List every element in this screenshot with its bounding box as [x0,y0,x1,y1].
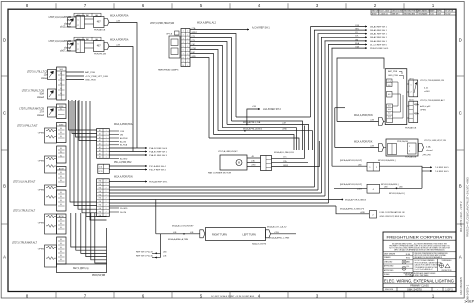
ground continuation box [340,207,406,218]
svg-text:1: 1 [409,146,410,148]
svg-text:DL-C3 REF SH 5: DL-C3 REF SH 5 [370,44,388,46]
svg-text:PRINTED • 4TL/CSM/CLAN/CPN/LST: PRINTED • 4TL/CSM/CLAN/CPN/LST • SHLNTC … [467,177,470,237]
wire relay K2 to bus [109,47,133,152]
REF arrow P22-B [136,251,167,258]
svg-text:FAN CORNER MOTOR: FAN CORNER MOTOR [208,172,231,175]
backup lamp relay row 2 [334,183,422,195]
svg-text:1 OF 5: 1 OF 5 [445,288,453,291]
svg-text:MCA,A,APNL,L,TRN: MCA,A,APNL,L,TRN [269,236,290,239]
zone scale top [26,3,435,9]
svg-text:7-4 REF SH 5: 7-4 REF SH 5 [435,171,449,173]
left turn output wires [267,225,296,239]
wire BAT_PDB [66,71,84,73]
svg-text:MCA,A,PDR,PDN: MCA,A,PDR,PDN [114,176,133,179]
svg-text:MCA,A,PDR,PDN: MCA,A,PDR,PDN [354,114,373,117]
trailer lamp breaker CB4 [22,89,56,99]
panel lamp resistor module R1 [17,125,57,143]
svg-text:DB-A5 REF SH 1: DB-A5 REF SH 1 [370,29,388,32]
REF arrow P1A-D2 [109,147,145,149]
bundle riser wires [310,27,312,118]
relay module K2 (lower park lamp feed) [49,37,133,151]
fuse pin box [76,40,85,53]
svg-text:-GRD: -GRD [251,165,256,167]
svg-text:2: 2 [411,92,412,94]
svg-text:A50: A50 [77,38,80,41]
wire into lamp unit L1 [332,165,367,167]
REF arrow P1D-F [109,169,145,171]
svg-text:LTDT,U,LN,ALBT,ALT: LTDT,U,LN,ALBT,ALT [13,181,36,184]
svg-text:A: A [459,255,462,260]
svg-text:A3-PDM: A3-PDM [120,137,128,140]
svg-text:dd01,rl,p03: dd01,rl,p03 [420,105,431,108]
svg-text:D: D [459,38,462,43]
REF arrow P1C-A [109,165,145,167]
svg-text:PDR,AKDB: PDR,AKDB [405,156,417,159]
svg-text:-CM: -CM [370,119,374,121]
svg-text:PARK/HEAD LAMPS: PARK/HEAD LAMPS [158,69,179,72]
feed wire to PDR,PDN module [337,58,384,122]
svg-text:MCA,A,CLTL,LA,JU: MCA,A,CLTL,LA,JU [267,225,287,228]
turn signal lamp unit [206,228,267,246]
svg-text:DLW: DLW [437,14,441,16]
svg-text:DB-A6 REF SH 1: DB-A6 REF SH 1 [370,40,388,43]
svg-text:MCA,A,CLST,DR,KEY: MCA,A,CLST,DR,KEY [172,225,194,228]
bulkhead connector C1 segment 1 [97,123,133,159]
svg-text:OPEN: OPEN [38,190,45,192]
wire key box riser [106,228,108,264]
wire PDM feeder upper [72,100,97,134]
svg-text:A SH2: A SH2 [372,13,377,16]
svg-text:FREIGHTLINER CORPORATION: FREIGHTLINER CORPORATION [387,234,453,239]
svg-text:B1-PDA: B1-PDA [120,144,128,147]
svg-text:7-4 REF SH 5: 7-4 REF SH 5 [435,167,449,169]
svg-text:REDRAWN: REDRAWN [419,13,428,16]
bus wire B4 [109,195,325,197]
svg-text:C3: C3 [355,32,357,34]
svg-text:LTDT,U,PNL,LT,ALT: LTDT,U,PNL,LT,ALT [17,125,38,128]
REF arrow P1A-E1 [109,151,145,153]
wire PDM feeder long [82,101,97,213]
trailer marker breaker CB5 [19,107,56,117]
wire PDM feeder long [74,101,97,206]
wire run PNL,C,DA [227,124,309,150]
svg-text:OPTB: OPTB [99,171,103,173]
svg-text:-CM: -CM [252,106,256,108]
svg-text:BPLR,DN,A,MDL]: BPLR,DN,A,MDL] [378,159,396,162]
lamp unit L1 [367,163,380,172]
svg-text:MCA,A,PNL,A,MD2: MCA,A,PNL,A,MD2 [243,128,263,131]
svg-text:crD48: crD48 [424,90,430,93]
svg-text:REV DET: REV DET [372,10,379,12]
wire switch pin2 drop [190,34,236,118]
svg-text:-CM: -CM [282,122,286,124]
zone scale bottom [26,292,435,299]
wire PDM feeder upper [79,100,97,141]
svg-text:OPEN: OPEN [420,110,426,112]
svg-text:LTDT,U,TRLR,MKR3,ALT: LTDT,U,TRLR,MKR3,ALT [420,99,445,102]
turn feed riser [160,234,162,258]
svg-text:B: B [3,184,6,189]
wire stack lower feeder [95,213,107,263]
wire run SPNL,A,MD2 [218,131,313,150]
svg-text:-DM3: -DM3 [357,188,362,190]
park/head lamp switch S1 [150,23,190,71]
bulkhead connector C1 segment 2 [98,161,132,173]
wire switch pin1 to REF arrow A,C-M [190,29,247,31]
wire run pin3 [232,121,303,150]
svg-text:DB-A3 REF SH 1: DB-A3 REF SH 1 [370,25,388,28]
svg-text:D6-CM: D6-CM [120,212,127,214]
svg-text:BA1: BA1 [86,38,89,41]
svg-text:CM: CM [355,39,358,41]
svg-text:SA,A,21,DGTM: SA,A,21,DGTM [252,243,266,246]
svg-text:SEE SH 1: SEE SH 1 [392,14,400,16]
svg-text:GND_PDB: GND_PDB [388,75,399,77]
svg-text:-CM: -CM [370,146,374,148]
svg-text:MCA,A,APNL,S,GND,P3: MCA,A,APNL,S,GND,P3 [340,207,365,210]
wire into lamp unit L2 [334,187,367,189]
svg-text:-DBL: -DBL [251,161,255,163]
svg-text:P1D-F REF SH 4: P1D-F REF SH 4 [149,170,167,172]
svg-text:MCA,A,APAL,A,TRN: MCA,A,APAL,A,TRN [168,238,189,241]
svg-text:ECN T-11847: ECN T-11847 [379,10,389,12]
power distribution module stack [57,67,67,264]
wire relay K1 to bus [109,23,137,149]
terminal id strip [74,37,101,40]
fan motor wires [247,157,261,159]
circuit breaker box [68,41,77,51]
relay output connector [104,19,109,26]
resistor module R3 [13,181,57,205]
svg-text:REF SH 5 P22-A: REF SH 5 P22-A [136,255,153,258]
svg-text:M: M [238,162,240,165]
relay module K1 (upper park lamp feed) [49,13,137,148]
turn signal connector pentagon right [266,230,271,238]
svg-text:T-11847-01: T-11847-01 [379,14,388,16]
svg-text:LEFT TURN: LEFT TURN [243,233,257,236]
relay box [94,41,105,52]
svg-text:-GRD: -GRD [360,212,366,214]
svg-text:UNLESS OTHERWISE NOTED DIMENS: UNLESS OTHERWISE NOTED DIMENSIONS [415,253,448,255]
svg-text:P1C-A REF SH 4: P1C-A REF SH 4 [149,165,167,168]
svg-text:RIGHT TURN: RIGHT TURN [212,233,227,236]
svg-text:DESCR ZONE: DESCR ZONE [392,10,404,12]
relay output connector [104,43,109,50]
wire PDM feeder upper [76,100,98,137]
fan connector output wires [272,126,305,159]
svg-text:-MD: -MD [358,164,362,166]
svg-text:OPT A: OPT A [166,33,173,36]
svg-text:MCA,A,POR,S,GND3: MCA,A,POR,S,GND3 [345,198,367,201]
svg-text:ELEC. WIRING, EXTERNAL LIGHTIN: ELEC. WIRING, EXTERNAL LIGHTING [384,279,454,284]
svg-text:PRK,DA,DB: PRK,DA,DB [397,140,409,143]
turn feed wire [156,225,200,242]
svg-text:KEY,J,QRX,my: KEY,J,QRX,my [73,268,89,270]
REF arrow PDN-A3 [109,181,145,183]
wire L1 to REF 7-4 [380,166,423,188]
svg-text:A,C-M REF SH 1: A,C-M REF SH 1 [252,27,270,30]
svg-text:9-94: 9-94 [430,14,433,16]
svg-text:PROJECTION: PROJECTION [442,270,452,272]
svg-text:-MD: -MD [163,251,167,253]
svg-text:+PR,uPB: +PR,uPB [422,154,431,156]
svg-text:BPLR,DN,A,LD]: BPLR,DN,A,LD] [389,192,405,195]
svg-text:PNL,A,PDR,PD2: PNL,A,PDR,PD2 [114,161,132,164]
wire bundle top run 1 [311,26,366,28]
svg-text:PDR,PN,DB: PDR,PN,DB [94,54,106,56]
svg-text:MCA,A,PDR,PDK: MCA,A,PDR,PDK [354,141,373,144]
svg-text:GRD3: GRD3 [283,165,288,167]
wire bundle top run 7 [332,47,366,49]
svg-text:D: D [3,38,6,43]
svg-text:BY CK DR: BY CK DR [445,10,454,12]
svg-text:1: 1 [411,85,412,87]
bus wire B7 [109,205,336,207]
svg-text:FOR CONTINUATION OF: FOR CONTINUATION OF [380,211,406,214]
REF arrow P1A-F1 [109,154,145,156]
svg-text:APPROVED: APPROVED [384,269,394,272]
svg-text:CAD: 06K24370: CAD: 06K24370 [460,276,463,295]
svg-text:BAT_PDB: BAT_PDB [85,71,95,74]
wire bundle top run 4 [321,36,365,38]
svg-text:DB-A1 REF SH 1: DB-A1 REF SH 1 [370,33,388,36]
svg-text:06K-24370: 06K-24370 [407,288,422,292]
bus wire B5 [109,199,342,201]
wire run 7 [214,135,295,151]
svg-text:[MCA,A,BPLR,DN,DP]: [MCA,A,BPLR,DN,DP] [340,159,362,162]
svg-text:PDR,PW,DB: PDR,PW,DB [92,275,106,277]
bus wire B7 to GND continuation [336,206,368,214]
turn signal connector pentagon left [200,230,205,238]
svg-text:+12V_PWR_UPT_DSB: +12V_PWR_UPT_DSB [85,76,108,78]
svg-text:OPEN: OPEN [38,133,45,135]
svg-text:487: 487 [97,46,102,48]
svg-text:C: C [3,111,6,116]
connector pentagon into U3 [379,118,384,126]
svg-text:PDR,AKCB: PDR,AKCB [94,29,106,32]
svg-text:REVISED AND: REVISED AND [404,13,416,16]
option breaker OPT1 [407,78,445,96]
svg-text:MCA,A,PNL,L,DA: MCA,A,PNL,L,DA [243,121,261,124]
wire run 5 [223,128,297,150]
svg-text:-GRD: -GRD [282,129,288,131]
feed wire to PRK,DA module [335,107,345,109]
svg-text:DATE DRAWN: DATE DRAWN [384,253,396,256]
wire bundle top run 5 [325,40,366,42]
svg-text:BA1: BA1 [86,14,89,17]
wire bundle top run 6 [328,44,365,46]
svg-text:P1A-F1 REF SH 3: P1A-F1 REF SH 3 [149,154,168,157]
resistor module R2 [38,156,57,173]
fan motor connector C2 [261,151,295,171]
svg-text:closed: closed [37,96,45,99]
zone scale left letters [1,38,8,260]
svg-text:5036: 5036 [59,124,63,126]
key switch box [57,264,107,277]
svg-text:B: B [459,184,462,189]
svg-text:OPEN: OPEN [38,161,45,163]
svg-text:REVISED PER ECN: REVISED PER ECN [404,10,420,12]
backup lamp relay row 1 [332,159,449,188]
svg-text:GND_PDB: GND_PDB [85,79,96,81]
wire PDM feeder long [86,101,107,216]
fan corner motor M1 [208,150,247,174]
svg-text:DO NOT SCALE PRINT • IF IN DOU: DO NOT SCALE PRINT • IF IN DOUBT ASK [211,295,255,298]
REF arrows 7-4 [422,166,430,168]
wire L2 to junction [380,187,423,189]
wire K1 feeder into C1 [136,147,138,149]
svg-text:MCA,A,BPNL,AL2: MCA,A,BPNL,AL2 [197,21,217,24]
ground junction GND3 [341,198,366,201]
resistor module R4 [13,210,57,234]
wire stack lower feeder [71,213,107,247]
revision table [371,9,456,15]
wire switch pin4 drop [190,42,227,125]
wire PDM feeder long [70,101,97,202]
wire stack lower feeder [81,213,107,253]
wire PDM feeder long [78,101,97,209]
terminal id strip [74,13,101,16]
wire switch pin3 drop [190,38,232,122]
svg-text:A5-CM: A5-CM [120,140,126,143]
svg-text:DRAWN: DRAWN [384,256,391,259]
svg-text:2: 2 [409,151,410,153]
svg-text:AC50: AC50 [59,215,64,218]
svg-text:06K-24370 • REV - • SHT 2: 06K-24370 • REV - • SHT 2 [460,201,463,232]
circuit breaker box [68,17,77,27]
svg-text:[MCA,A,BPLR,DN,DP]: [MCA,A,BPLR,DN,DP] [340,183,362,186]
lamp unit L2 [367,184,380,193]
svg-text:PDN-A3 REF SH 1: PDN-A3 REF SH 1 [149,181,168,184]
svg-text:REF SH 5 P22-B: REF SH 5 P22-B [136,251,153,253]
svg-text:OPEN: OPEN [38,249,45,251]
svg-text:10: 10 [182,65,184,67]
wire bundle top run 2 [314,29,365,31]
svg-text:B2-GRD: B2-GRD [120,158,128,160]
svg-text:AC59: AC59 [59,167,64,170]
svg-text:PDB-F5 REF SH 5: PDB-F5 REF SH 5 [370,48,389,50]
svg-text:LTDT,U,LKR,UP,LT,CB: LTDT,U,LKR,UP,LT,CB [424,140,446,142]
svg-text:06K-24370 • 2: 06K-24370 • 2 [467,284,470,300]
battery PDB module U2 [385,69,407,125]
wire switch pin8 drop [190,58,209,139]
park lamp module U4 [354,139,446,159]
svg-text:MCA,A,PDR,PDA: MCA,A,PDR,PDA [110,39,129,42]
svg-text:-MD: -MD [399,187,403,189]
svg-text:MCA,A,PDR,PDA: MCA,A,PDR,PDA [110,15,129,18]
svg-text:D5-GRD: D5-GRD [120,208,128,210]
title block [383,232,456,292]
wire bundle top run 3 [318,33,366,35]
C1 output stubs [109,130,128,214]
wire K2 feeder into C1 [132,151,134,153]
wire GND_PDB [66,79,84,81]
bus wire B2 [109,189,318,191]
svg-text:A: A [3,255,6,260]
bus wire B3 [109,192,321,194]
wire switch pin5 drop [190,46,223,128]
connector pentagon into U4 [379,144,384,152]
junction LG1-B tap [247,109,258,124]
wire run 8 [209,138,299,150]
svg-text:OPEN: OPEN [38,223,45,225]
wire run pin2 [236,116,311,118]
bus wire B6 [109,202,328,204]
wire switch pin6 drop [190,50,218,131]
fuse pin box [76,16,85,29]
svg-text:A50: A50 [77,14,80,17]
svg-text:KS JW: KS JW [445,14,451,16]
bus wire B1 [109,186,314,188]
svg-text:PDR,AKCB: PDR,AKCB [405,126,417,129]
wire stack lower feeder [91,213,107,260]
wire stack lower feeder [86,213,107,257]
svg-text:LG1-B REF SH 2: LG1-B REF SH 2 [263,109,282,111]
wire stack lower feeder [76,213,107,250]
svg-text:C: C [459,111,462,116]
svg-text:closed: closed [426,150,433,152]
svg-text:LTDT,U,TRLR,MKR,ALT: LTDT,U,TRLR,MKR,ALT [12,242,38,245]
svg-text:-MD: -MD [384,187,388,189]
turn feed drop from bus [155,200,157,234]
svg-text:DB-A2 REF SH 1: DB-A2 REF SH 1 [370,36,388,39]
svg-text:GND CIRCUIT, REF SH 5: GND CIRCUIT, REF SH 5 [380,216,406,218]
svg-text:closed: closed [37,114,45,117]
svg-text:4.0A: 4.0A [426,146,431,149]
svg-text:MCA,A,PDR,PDA: MCA,A,PDR,PDA [114,123,133,126]
svg-text:SCALE: SCALE [384,273,390,276]
svg-text:LTDT,U,TRLR,MKR3,CB: LTDT,U,TRLR,MKR3,CB [420,80,444,82]
svg-text:LTDT,U,TRLR,LT,ALT: LTDT,U,TRLR,LT,ALT [13,210,36,213]
svg-text:P1A-D2 REF SH 4: P1A-D2 REF SH 4 [149,147,168,150]
svg-text:APPROVED: APPROVED [384,265,394,268]
svg-text:DWG SIZE: DWG SIZE [385,289,393,291]
relay box [94,17,105,28]
utility lamp breaker CB3 [27,70,109,82]
svg-text:MCA,A,DL,PAL,DS3: MCA,A,DL,PAL,DS3 [274,151,295,154]
resistor module R5 [12,242,57,267]
wire switch pin7 drop [190,54,214,135]
svg-text:LTDT,A,LBR,UN,MY: LTDT,A,LBR,UN,MY [218,150,238,153]
wire +12V_PWR [66,75,84,77]
svg-text:CHECKED: CHECKED [384,261,393,263]
svg-text:LTDT,U,PRK,HDLP,SW: LTDT,U,PRK,HDLP,SW [150,23,175,25]
wire PDM feeder long [90,101,107,220]
switch connector pin strip [181,29,190,67]
marker lamp resistor block AC50 [354,98,445,129]
wire PDM feeder upper [69,100,98,130]
zone scale right letters [456,38,464,260]
svg-text:APVD: APVD [437,9,442,12]
bulkhead connector C1 segment 3 [97,176,133,217]
svg-text:487: 487 [97,22,102,24]
svg-text:BAT_PDB: BAT_PDB [388,70,398,73]
svg-text:P1A-E1 REF SH 1: P1A-E1 REF SH 1 [149,151,168,154]
svg-text:DM: DM [120,134,123,136]
svg-text:1•SEP: 1•SEP [464,300,474,304]
